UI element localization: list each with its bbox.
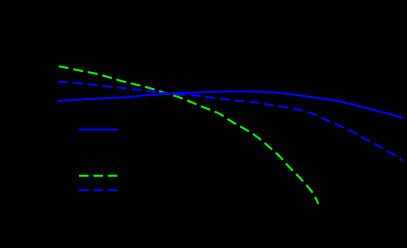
legend sample: dashed blue line	[79, 189, 118, 191]
curve: dashed green	[59, 66, 319, 204]
curve: dashed blue	[58, 82, 403, 161]
legend sample: dashed green line	[79, 175, 118, 177]
legend sample: solid blue line	[79, 129, 118, 131]
curve: solid blue	[58, 91, 403, 117]
